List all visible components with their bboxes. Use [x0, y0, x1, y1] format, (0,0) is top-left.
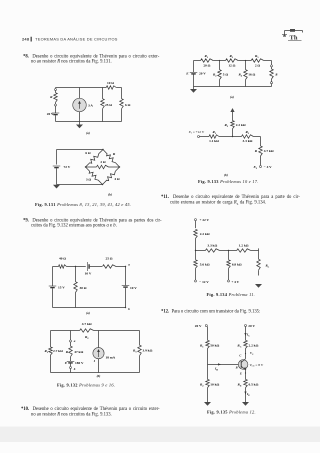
svg-text:(b): (b): [97, 374, 101, 378]
terminal 20V left fig 9.135: [195, 324, 208, 328]
node E fig 9.135: [239, 370, 246, 380]
svg-text:2.2 kΩ: 2.2 kΩ: [249, 344, 259, 348]
svg-text:VC: VC: [250, 351, 254, 356]
svg-text:E2: E2: [252, 165, 257, 170]
svg-text:3.3 kΩ: 3.3 kΩ: [243, 139, 253, 143]
resistor R5 2 Ohm fig 9.133a: [251, 54, 264, 68]
svg-text:R1: R1: [204, 54, 208, 59]
caption fig 9.134: [207, 292, 256, 297]
resistor RC 2.2k fig 9.135: [237, 340, 258, 348]
wire bottom rail fig 9.131b: [57, 184, 103, 186]
caption fig 9.135: [207, 410, 256, 415]
resistor R fig 9.131a: [50, 91, 57, 103]
wire IE arrow fig 9.135: [244, 388, 250, 402]
terminal E2 -4V fig 9.133b: [252, 165, 272, 170]
problem 8 text: [23, 54, 159, 59]
wire top rail fig 9.131b: [57, 150, 104, 165]
svg-text:R2: R2: [200, 383, 204, 388]
svg-text:IC: IC: [246, 333, 250, 338]
svg-text:IE: IE: [246, 392, 250, 397]
caption (b) fig 9.132b: [97, 374, 101, 378]
label B fig 9.135: [235, 365, 238, 369]
svg-text:E: E: [64, 361, 68, 365]
terminal E1 +12V fig 9.133b: [188, 130, 205, 138]
svg-text:E1 = +12 V: E1 = +12 V: [188, 130, 205, 135]
resistor 25 Ohm fig 9.132a: [103, 257, 126, 269]
svg-text:R: R: [113, 152, 116, 156]
svg-text:R: R: [255, 149, 258, 153]
svg-text:Th: Th: [290, 35, 298, 42]
wire bottom rail fig 9.132a: [53, 307, 126, 309]
svg-text:4 Ω: 4 Ω: [114, 177, 120, 181]
wire top rail fig 9.133a: [194, 60, 201, 62]
caption (b) fig 9.131b: [108, 193, 112, 197]
svg-text:− 12 V: − 12 V: [199, 280, 209, 284]
current source I 18mA fig 9.132b: [93, 331, 116, 373]
svg-text:(a): (a): [86, 311, 90, 315]
svg-text:R: R: [275, 73, 277, 77]
svg-text:10 Ω: 10 Ω: [107, 81, 114, 85]
svg-text:3.9 kΩ: 3.9 kΩ: [143, 349, 153, 353]
wire corner fig 9.133b: [253, 137, 260, 147]
Th badge text: [288, 35, 302, 42]
resistor R2 4.7k fig 9.132b: [80, 322, 94, 340]
svg-text:4.7 kΩ: 4.7 kΩ: [264, 149, 274, 153]
resistor R2 5 Ohm fig 9.133a: [213, 61, 228, 87]
resistor 6.8k fig 9.134: [227, 251, 242, 281]
svg-text:10 kΩ: 10 kΩ: [210, 383, 219, 387]
svg-text:50 kΩ: 50 kΩ: [210, 344, 219, 348]
Th badge circuit icon: [282, 29, 303, 37]
svg-text:1.2 kΩ: 1.2 kΩ: [239, 244, 249, 248]
current source 3A fig 9.131a: [73, 88, 94, 122]
resistor 1.2k fig 9.134: [237, 244, 259, 253]
resistor R1 2.7k fig 9.132b: [44, 331, 63, 373]
svg-text:C: C: [239, 354, 241, 358]
resistor RE 0.5k fig 9.135: [238, 379, 259, 387]
resistor 3 Ohm fig 9.131b: [86, 167, 103, 185]
svg-text:20 Ω: 20 Ω: [203, 64, 210, 68]
svg-text:R2: R2: [213, 73, 217, 78]
svg-text:VCE = 8 V: VCE = 8 V: [250, 363, 264, 368]
resistor 10 Ohm fig 9.131a: [103, 81, 122, 89]
svg-text:E: E: [239, 372, 242, 376]
svg-text:RL: RL: [266, 264, 270, 269]
wire top rail fig 9.131a: [56, 87, 103, 89]
svg-text:2.2 kΩ: 2.2 kΩ: [236, 123, 246, 127]
resistor R2 10k fig 9.135: [200, 365, 220, 403]
problem 10 text: [21, 407, 160, 412]
svg-text:2 Ω: 2 Ω: [255, 64, 261, 68]
svg-text:IB: IB: [214, 367, 218, 372]
terminal +4V fig 9.134: [228, 280, 240, 284]
battery E 20V fig 9.133a: [185, 61, 206, 87]
ground fig 9.131a: [76, 122, 83, 129]
node a fig 9.132b: [70, 331, 76, 344]
resistor RL fig 9.134: [257, 248, 270, 275]
resistor R fig 9.131b: [103, 150, 120, 168]
battery E 180V fig 9.132b: [64, 357, 84, 367]
svg-text:6 Ω: 6 Ω: [125, 103, 131, 107]
svg-text:R2: R2: [85, 335, 89, 340]
wire top rail fig 9.132b: [51, 330, 140, 332]
battery 10V inline fig 9.132a: [85, 262, 102, 276]
svg-text:180 V: 180 V: [75, 361, 84, 365]
node a fig 9.132a: [125, 263, 130, 268]
node bottom fig 9.131b: [102, 184, 103, 185]
caption fig 9.133: [198, 179, 259, 184]
svg-text:16 Ω: 16 Ω: [248, 73, 255, 77]
resistor R1 20 Ohm fig 9.133a: [201, 54, 214, 68]
resistor 30 Ohm fig 9.132a: [74, 267, 87, 308]
svg-text:0.5 kΩ: 0.5 kΩ: [249, 383, 259, 387]
svg-text:(b): (b): [224, 173, 228, 177]
svg-text:1.1 kΩ: 1.1 kΩ: [209, 139, 219, 143]
svg-text:6.8 kΩ: 6.8 kΩ: [232, 263, 242, 267]
resistor 6 Ohm fig 9.131a: [120, 88, 131, 122]
problem 9 text: [23, 218, 162, 223]
scan shadow band bottom: [0, 427, 320, 443]
svg-text:5.6 kΩ: 5.6 kΩ: [200, 263, 210, 267]
node top fig 9.131b: [102, 149, 103, 150]
node C VC fig 9.135: [239, 349, 254, 359]
svg-text:RE: RE: [238, 383, 242, 388]
header page number and title: [22, 37, 118, 42]
node b fig 9.132a: [125, 307, 130, 311]
label VCE fig 9.135: [250, 363, 264, 368]
svg-text:25 Ω: 25 Ω: [105, 257, 112, 261]
wire bottom rail fig 9.132b: [51, 372, 140, 374]
resistor R3 3.3k fig 9.133b: [242, 130, 254, 143]
svg-text:4.7 kΩ: 4.7 kΩ: [82, 322, 92, 326]
svg-text:20 V: 20 V: [195, 324, 202, 328]
wire bottom rail fig 9.133a: [194, 86, 272, 88]
node 2 fig 9.133a: [238, 60, 251, 61]
terminal +22V fig 9.134: [195, 218, 210, 222]
svg-text:B: B: [235, 365, 238, 369]
ground fig 9.131b: [53, 185, 60, 189]
svg-text:R3: R3: [245, 130, 249, 135]
battery 10V right fig 9.132a: [122, 267, 137, 308]
resistor R3 3.9k fig 9.132b: [133, 331, 153, 373]
svg-text:72 V: 72 V: [64, 165, 71, 169]
svg-text:R1: R1: [44, 349, 48, 354]
node 1 fig 9.133a: [213, 60, 226, 61]
wire bottom rail fig 9.131a: [56, 121, 122, 123]
svg-text:47 kΩ: 47 kΩ: [74, 350, 83, 354]
caption (a) fig 9.133a: [230, 95, 234, 99]
resistor R3 12 Ohm fig 9.133a: [226, 54, 239, 68]
caption fig 9.131: [35, 202, 131, 207]
svg-text:(a): (a): [86, 131, 90, 135]
ground right fig 9.135: [242, 402, 249, 406]
ground fig 9.134: [255, 284, 262, 288]
svg-text:3 Ω: 3 Ω: [86, 178, 92, 182]
node left fig 9.134: [195, 250, 196, 251]
resistor 2.2k fig 9.134: [194, 221, 210, 251]
svg-text:2 Ω: 2 Ω: [100, 160, 106, 164]
terminal top fig 9.133a: [271, 65, 273, 67]
terminal -12V fig 9.134: [195, 280, 210, 284]
svg-text:40 Ω: 40 Ω: [59, 257, 66, 261]
wire IC arrow fig 9.135: [244, 327, 250, 341]
svg-text:(b): (b): [108, 193, 112, 197]
svg-text:R3: R3: [133, 349, 137, 354]
ground fig 9.133a: [190, 87, 197, 93]
svg-text:20 V: 20 V: [199, 72, 206, 76]
svg-text:R1: R1: [200, 344, 204, 349]
svg-text:10 V: 10 V: [85, 272, 92, 276]
resistor 6 Ohm fig 9.131b: [85, 150, 103, 168]
caption (a) fig 9.131a: [86, 131, 90, 135]
wire top rail fig 9.132a: [53, 266, 76, 268]
node junction fig 9.133b: [219, 136, 242, 137]
resistor 40 Ohm fig 9.132a: [59, 257, 67, 269]
svg-text:2.2 kΩ: 2.2 kΩ: [200, 232, 210, 236]
resistor 5.6k fig 9.134: [194, 251, 210, 281]
resistor R2 2.2k fig 9.133b: [224, 121, 245, 137]
svg-text:I: I: [93, 359, 96, 363]
svg-text:b: b: [128, 307, 130, 311]
node right fig 9.131b: [119, 166, 120, 167]
node junction fig 9.132a: [75, 266, 86, 267]
resistor R1 1.1k fig 9.133b: [200, 130, 220, 143]
svg-text:3 A: 3 A: [88, 104, 93, 108]
svg-text:25 Ω: 25 Ω: [105, 103, 112, 107]
svg-text:+ 4 V: + 4 V: [231, 280, 239, 284]
svg-text:b: b: [74, 367, 76, 371]
problem 12 text: [161, 309, 260, 314]
resistor R4 16 Ohm fig 9.133a: [238, 61, 255, 87]
svg-text:(a): (a): [230, 95, 234, 99]
svg-text:R4: R4: [238, 73, 242, 78]
svg-text:R: R: [66, 350, 69, 354]
svg-text:10 V: 10 V: [130, 286, 137, 290]
resistor 4 Ohm fig 9.131b: [103, 167, 120, 185]
battery 15V fig 9.132a: [49, 267, 65, 308]
transistor Q fig 9.135: [238, 359, 248, 370]
svg-text:5 Ω: 5 Ω: [223, 73, 229, 77]
resistor 2 Ohm fig 9.131b: [86, 160, 120, 169]
terminal bottom fig 9.133a: [271, 82, 273, 87]
ground left fig 9.135: [204, 402, 211, 406]
svg-text:12 Ω: 12 Ω: [228, 64, 235, 68]
terminal bottom R fig 9.131a: [55, 102, 57, 106]
resistor R1 50k fig 9.135: [200, 327, 220, 365]
svg-text:R2: R2: [224, 123, 228, 128]
resistor R 4.7k fig 9.133b: [255, 146, 274, 166]
svg-text:R: R: [50, 95, 53, 99]
node left fig 9.131b: [85, 166, 86, 167]
svg-text:3.3 kΩ: 3.3 kΩ: [207, 244, 217, 248]
svg-text:R3: R3: [229, 54, 233, 59]
svg-text:20 V: 20 V: [248, 324, 255, 328]
arrow up fig 9.133b: [230, 108, 234, 121]
svg-text:18 mA: 18 mA: [106, 356, 116, 360]
svg-text:R5: R5: [255, 54, 259, 59]
svg-text:a: a: [128, 263, 130, 267]
terminal 20V right fig 9.135: [245, 324, 256, 328]
terminal top R fig 9.131a: [55, 88, 57, 91]
resistor 3.3k fig 9.134: [196, 244, 220, 253]
caption (b) fig 9.133b: [224, 173, 228, 177]
battery 72V fig 9.131b: [53, 165, 71, 185]
svg-text:+ 22 V: + 22 V: [200, 218, 210, 222]
wire to load fig 9.133a: [264, 61, 272, 65]
problem 11 text: [161, 195, 300, 200]
svg-text:E: E: [185, 72, 189, 76]
resistor R load fig 9.133a: [270, 67, 278, 82]
caption (a) fig 9.132a: [86, 311, 90, 315]
svg-text:− 4 V: − 4 V: [264, 165, 272, 169]
svg-text:RC: RC: [237, 344, 241, 349]
caption fig 9.132: [57, 383, 115, 388]
svg-text:a: a: [74, 339, 76, 343]
node mid fig 9.134: [220, 250, 237, 251]
resistor R 47k fig 9.132b: [66, 342, 84, 357]
node b fig 9.132b: [70, 367, 76, 373]
wire base with IB arrow fig 9.135: [208, 363, 239, 371]
resistor 25 Ohm fig 9.131a: [101, 88, 113, 122]
svg-text:20 V: 20 V: [47, 112, 54, 116]
svg-text:6 Ω: 6 Ω: [85, 151, 91, 155]
svg-text:15 V: 15 V: [58, 286, 65, 290]
svg-text:30 Ω: 30 Ω: [80, 286, 87, 290]
battery E 20V fig 9.131a: [47, 106, 59, 122]
svg-text:2.7 kΩ: 2.7 kΩ: [53, 349, 63, 353]
